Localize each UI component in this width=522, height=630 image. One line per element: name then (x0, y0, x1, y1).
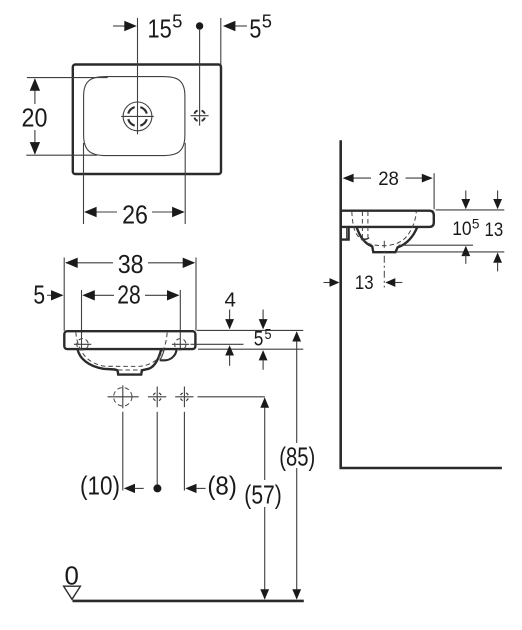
plan: faucet hole outer circle (123, 102, 152, 131)
front: overflow slot inner line (160, 349, 165, 360)
dim (57): bottom down arrow (260, 589, 269, 599)
dim 13 (bottom): right arrow (385, 278, 395, 287)
svg-text:5: 5 (254, 328, 264, 351)
dim 38: right arrow (183, 258, 196, 268)
front: supply hole left dashed circle (153, 393, 161, 401)
side view: washbasin slab profile (342, 211, 434, 227)
dim 28 (side): left arrow (343, 174, 354, 183)
dim 26: dimension line (85, 211, 117, 213)
svg-text:(10): (10) (80, 471, 120, 501)
side: hidden faucet hole dashed lines (361, 212, 363, 238)
dim 5.5 (front): upper down arrow (262, 310, 264, 321)
dim 20: top extension line (27, 77, 108, 79)
plan view: washbasin outer rectangle (73, 65, 221, 175)
dim (57): vertical line (264, 399, 266, 481)
dim 28 (front): left arrow (82, 290, 95, 300)
plan: right edge extension line (220, 18, 222, 65)
side view: wall and niche floor line (341, 140, 502, 468)
front: supply hole left stem line (156, 412, 158, 492)
dim 20: bottom extension line (26, 154, 97, 156)
front: siphon hole crosshair (108, 396, 139, 398)
side: drain bottom reference line (397, 251, 504, 253)
dim 28 (front): right arrow (167, 290, 180, 300)
front: hidden basin dashed outline (76, 332, 167, 366)
dim 13 (right): lower up arrow (493, 253, 502, 263)
svg-text:5: 5 (472, 215, 480, 231)
dim 38: left arrow (65, 258, 78, 268)
dim (57): top up arrow (260, 397, 269, 407)
dim 10.5: upper down arrow (465, 191, 467, 201)
plan: side hole crosshair horizontal (191, 115, 209, 117)
svg-text:28: 28 (378, 168, 399, 190)
dim 28 (front): dimension line (84, 294, 115, 296)
dim 15.5: dot terminator (196, 22, 203, 29)
svg-text:13: 13 (485, 219, 504, 241)
floor line (73, 600, 304, 603)
front: supply hole right dashed circle (181, 393, 189, 401)
svg-text:28: 28 (117, 279, 141, 309)
front: siphon hole stem line (122, 412, 124, 491)
side: drain centerline (383, 241, 385, 288)
dim 20: dimension line (34, 79, 36, 104)
plan: side hole circle (194, 110, 204, 120)
zero level triangle marker (64, 586, 81, 599)
dim (85): vertical line (296, 333, 298, 444)
dim 28 (side): right arrow (422, 174, 433, 183)
front: bowl underside outline (78, 349, 162, 375)
dim 38: right extension line (195, 258, 197, 331)
dim 20: down arrow (30, 142, 40, 155)
reference line: holes level to (57) (198, 396, 265, 398)
front: supply hole right stem line (183, 412, 185, 491)
front view: washbasin slab (64, 331, 195, 349)
svg-text:5: 5 (249, 13, 261, 43)
dim 15.5: arrow (113, 25, 125, 27)
dim (10)/(8): dot terminator (153, 484, 161, 492)
dim 28 (side): right extension line (433, 173, 435, 209)
svg-text:5: 5 (33, 279, 45, 309)
plan: side hole vertical extension line (199, 30, 201, 126)
svg-text:26: 26 (122, 200, 148, 230)
dim 26: right arrow (172, 207, 185, 217)
dim 10.5: lower up arrow (461, 246, 470, 256)
plan: faucet hole inner circle (128, 107, 147, 126)
dim 5: arrow (47, 294, 54, 296)
dim 26: right extension line (184, 143, 186, 224)
dim (10): arrow (124, 484, 135, 493)
side: basin top reference line (436, 209, 505, 211)
dim 26: left extension line (83, 143, 85, 224)
front: hidden drain dashes (118, 369, 141, 371)
front: left tap hole dashed circle (77, 339, 88, 350)
dim 38: left extension line (63, 258, 65, 331)
svg-text:(57): (57) (244, 480, 281, 510)
reference line: slab top level (197, 329, 303, 331)
svg-text:(8): (8) (207, 471, 237, 501)
front: supply hole right crosshair (175, 396, 193, 398)
side: hidden basin dashed outline (352, 212, 417, 246)
plan: faucet crosshair horizontal (121, 115, 154, 117)
plan: faucet vertical extension line (137, 18, 139, 134)
dim 28 (front): right extension line (179, 290, 181, 349)
dim 5.5 (front): lower up arrow (259, 350, 268, 360)
plan view: basin inner outline (84, 77, 185, 156)
dim 28 (side): dimension line (345, 177, 372, 179)
front: left tap hole crosshair (74, 343, 91, 345)
side: bowl bottom reference line (399, 244, 473, 246)
svg-text:38: 38 (118, 249, 144, 279)
dim (8): arrow (185, 484, 196, 493)
dim 5.5: arrow (223, 21, 236, 31)
front: supply hole left crosshair (148, 396, 166, 398)
dim 26: left arrow (84, 207, 97, 217)
front: siphon hole dashed circle (114, 388, 132, 406)
svg-text:10: 10 (452, 218, 472, 240)
dim (85): bottom down arrow (292, 589, 301, 599)
svg-text:(85): (85) (279, 441, 315, 471)
dim 28 (front): left extension line (81, 290, 83, 349)
dim 4: upper down arrow (229, 310, 231, 321)
svg-text:5: 5 (265, 326, 272, 343)
reference line: tap hole center level (191, 343, 244, 345)
svg-text:15: 15 (148, 13, 172, 43)
svg-text:13: 13 (355, 272, 374, 294)
side view: bowl underside outline (357, 227, 418, 252)
front: overflow bump (160, 349, 177, 360)
reference line: slab bottom level (198, 348, 303, 350)
svg-text:20: 20 (22, 103, 48, 133)
dim 13 (right): upper down arrow (497, 191, 499, 201)
side view: rear bracket (342, 227, 349, 240)
svg-text:5: 5 (262, 11, 272, 31)
side: faucet hole bottom edge (361, 238, 369, 240)
side: bracket inner line (346, 227, 348, 239)
dim 38: dimension line (66, 262, 113, 264)
dim 4: lower up arrow (225, 345, 234, 355)
dim (85): top up arrow (292, 331, 301, 341)
dim 20: up arrow (30, 78, 40, 91)
dim 13 (bottom): left arrow (324, 282, 331, 284)
front: right tap hole crosshair (172, 343, 189, 345)
svg-text:4: 4 (225, 289, 236, 312)
front: right tap hole dashed circle (175, 339, 186, 350)
svg-text:5: 5 (172, 11, 182, 31)
